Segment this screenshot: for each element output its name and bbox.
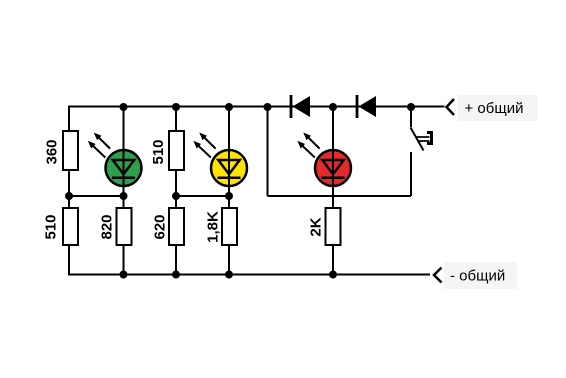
svg-text:510: 510	[43, 214, 60, 239]
wire: bottom supply rail (-)	[69, 274, 430, 276]
node: R 820 on bottom rail	[120, 271, 128, 279]
wire: rail to R 360 top	[68, 106, 70, 132]
node: R 2K on bottom rail	[329, 271, 337, 279]
LED yellow	[194, 133, 247, 186]
node: R 1,8K on bottom rail	[225, 271, 233, 279]
resistor 820	[117, 208, 132, 245]
node: A mid junction	[65, 192, 73, 200]
wire: bypass drop from node before diodes	[267, 107, 269, 197]
resistor 2K	[326, 208, 341, 245]
LED green	[89, 133, 142, 186]
wire: top supply rail (+)	[69, 106, 445, 108]
node: switch tap on top rail	[407, 103, 415, 111]
svg-text:+ общий: + общий	[465, 100, 524, 117]
wire: yellow LED cathode to R 1,8K	[228, 186, 230, 208]
wire: junction link A-B	[69, 195, 124, 197]
connector terminal X1 plus	[447, 99, 455, 115]
diode VD1	[291, 95, 310, 118]
resistor 360	[63, 131, 78, 170]
svg-text:510: 510	[150, 139, 167, 164]
text backdrop minus terminal	[444, 262, 517, 289]
diode VD2	[357, 95, 376, 118]
svg-text:- общий: - общий	[450, 268, 505, 285]
node: yellow LED anode on top rail	[225, 103, 233, 111]
wire: rail to R 510 (top)	[175, 107, 177, 132]
wire: rail to yellow LED anode	[228, 107, 230, 151]
connector terminal X2 minus	[434, 268, 442, 283]
node: B mid junction	[120, 192, 128, 200]
node: red LED tap between diodes	[329, 103, 337, 111]
wire: R 360 bottom to R 510 top	[68, 170, 70, 208]
resistor 510 (lower, first branch)	[63, 208, 78, 245]
svg-text:820: 820	[99, 214, 116, 239]
resistor 1,8K	[222, 208, 237, 245]
node: green LED anode on top rail	[120, 103, 128, 111]
wire: R 2K to bottom rail	[332, 245, 334, 275]
svg-text:1,8K: 1,8K	[205, 211, 222, 243]
resistor 620	[169, 208, 184, 245]
wire: R 620 to bottom rail	[175, 245, 177, 275]
wire: R 510 bottom to bottom rail corner	[68, 245, 70, 276]
node: D mid junction	[225, 192, 233, 200]
node: C mid junction	[172, 192, 180, 200]
wire: rail to green LED anode	[123, 107, 125, 151]
svg-text:620: 620	[152, 214, 169, 239]
resistor 510 (upper, third branch)	[169, 131, 184, 170]
svg-text:2K: 2K	[308, 217, 325, 236]
node: bypass tap on top rail	[264, 103, 272, 111]
wire: R 510 bottom to R 620 top	[175, 170, 177, 208]
wire: R 820 to bottom rail	[123, 245, 125, 275]
svg-text:360: 360	[44, 139, 61, 164]
wire: junction link C-D	[176, 195, 229, 197]
wire: red LED cathode to R 2K	[332, 186, 334, 208]
LED red	[298, 133, 351, 186]
wire: diode node to red LED anode	[332, 107, 334, 151]
wire: switch lower lead	[410, 152, 412, 196]
wire: R 1,8K to bottom rail	[228, 245, 230, 275]
node: R 510 top on top rail	[172, 103, 180, 111]
wire: red LED cathode horizontal link	[268, 195, 412, 197]
text backdrop plus terminal	[458, 95, 538, 121]
wire: green LED cathode to R 820	[123, 186, 125, 208]
node: R 620 on bottom rail	[172, 271, 180, 279]
switch SB1 pushbutton	[411, 107, 432, 151]
